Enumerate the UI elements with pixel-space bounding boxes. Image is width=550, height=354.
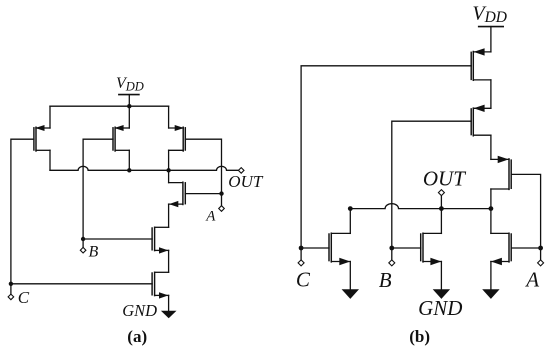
junction dot VDD rail (a) [127,104,131,108]
svg-text:GND: GND [122,301,157,320]
junction dot node C (a) [9,282,13,286]
wire Q5 gate lead (a) [83,238,152,240]
transistor Q11 NMOS (b), gate B [421,233,442,265]
ground symbol under Q11 (b) [433,289,450,299]
wire Q7 drain to Q8 source (b) [490,80,492,108]
svg-text:B: B [379,268,392,292]
power bar VDD (b) [479,26,504,28]
junction dot rail right / Q9 drain (b) [489,206,494,211]
wire Q6 gate lead (a) [11,283,152,285]
transistor Q9 PMOS (b), gate A (mirrored) [491,156,511,190]
transistor Q6 NMOS (a), gate C [152,272,169,298]
transistor Q4 NMOS (a), gate A (mirrored) [169,182,186,207]
wire Q4 drain to OUT rail (a) [168,170,170,182]
transistor Q10 NMOS (b), gate C [329,233,350,265]
wire node C (a): Q1 gate lead down to terminal [11,139,34,294]
wire OUT rail (a) with hops over B and A wires [50,166,239,170]
svg-text:OUT: OUT [423,166,466,190]
svg-text:A: A [205,209,216,225]
terminal C (b) [298,260,304,266]
junction dot node B (b) [389,246,394,251]
wire VDD stem (a) [128,95,130,107]
wire Q6 source down (a) [168,295,170,310]
wire OUT stem (b) [440,196,442,209]
wire Q1 source to rail (a) [49,106,51,128]
svg-text:VDD: VDD [116,75,144,94]
svg-text:VDD: VDD [472,2,507,26]
wire Q4 source to Q5 drain (a) [168,204,170,227]
ground symbol under Q12 (b) [482,289,499,299]
wire Q10 gate lead (b) [301,247,329,249]
terminal A (b) [538,260,544,266]
wire Q12 drain to rail (b) [490,209,492,234]
wire node C (b): Q7 gate lead and run to terminal [301,66,471,260]
terminal C (a) [8,294,14,300]
terminal B (b) [389,260,395,266]
wire Q11 gate lead (b) [392,247,421,249]
junction dot rail middle / OUT tap (b) [439,206,444,211]
wire node A (a): Q3 gate lead down to terminal [185,139,221,206]
junction dot Q3 drain on OUT rail (a) [166,168,170,172]
wire Q8 drain to Q9 source (b) [490,135,492,159]
wire Q11 drain to rail (b) [440,209,442,234]
wire Q11 source down (b) [440,262,442,290]
junction dot node C (b) [299,246,304,251]
wire node A (b): Q9 gate lead down to terminal [511,174,540,260]
svg-text:A: A [524,267,539,291]
transistor Q5 NMOS (a), gate B [152,227,169,253]
power bar VDD (a) [119,94,139,96]
terminal OUT (b) [438,190,444,196]
wire Q10 source down (b) [349,262,351,290]
wire node B (a): Q2 gate lead down to terminal [83,139,113,247]
wire Q12 source down (b) [490,262,492,290]
wire Q10 drain to rail (b) [349,209,351,234]
wire Q3 drain down (a) [168,150,170,170]
wire node B (b): Q8 gate lead down through hop to terminal [392,121,471,260]
ground symbol (a) [161,311,177,318]
svg-text:(a): (a) [127,327,147,346]
svg-text:OUT: OUT [228,172,264,191]
junction dot node A (b) [538,246,543,251]
transistor Q12 NMOS (b), gate A (mirrored) [491,233,511,265]
junction dot Q2 drain on OUT rail (a) [127,168,131,172]
wire VDD rail (a) [50,105,169,107]
svg-text:(b): (b) [409,327,430,346]
ground symbol under Q10 (b) [342,289,359,299]
wire Q12 gate lead (b) [511,247,540,249]
terminal B (a) [80,247,86,253]
wire Q3 source to rail (a) [168,106,170,128]
wire Q9 drain to OUT rail (b) [490,189,492,209]
wire Q4 gate lead (a) [185,193,221,195]
transistor Q2 PMOS (a), gate B [113,125,129,151]
transistor Q8 PMOS (b), gate B [471,105,491,136]
junction dot node B (a) [81,237,85,241]
terminal OUT (a) [238,168,244,174]
svg-text:GND: GND [418,296,462,320]
wire OUT rail (b) with hop over B wire [350,204,491,209]
wire Q1 drain down (a) [49,150,51,170]
wire Q5 source to Q6 drain (a) [168,250,170,272]
wire Q2 source to rail (a) [128,106,130,128]
transistor Q1 PMOS (a), gate C [34,125,50,151]
transistor Q3 PMOS (a), gate A (mirrored) [169,125,186,151]
transistor Q7 PMOS (b), gate C [471,48,491,80]
svg-text:B: B [89,243,99,260]
terminal A (a) [219,206,225,212]
wire Q7 source to VDD (b) [490,27,492,52]
wire Q2 drain down (a) [128,150,130,170]
junction dot rail left / Q10 drain (b) [348,206,353,211]
svg-text:C: C [296,268,311,292]
junction dot node A (a) [219,191,223,195]
svg-text:C: C [18,288,30,307]
